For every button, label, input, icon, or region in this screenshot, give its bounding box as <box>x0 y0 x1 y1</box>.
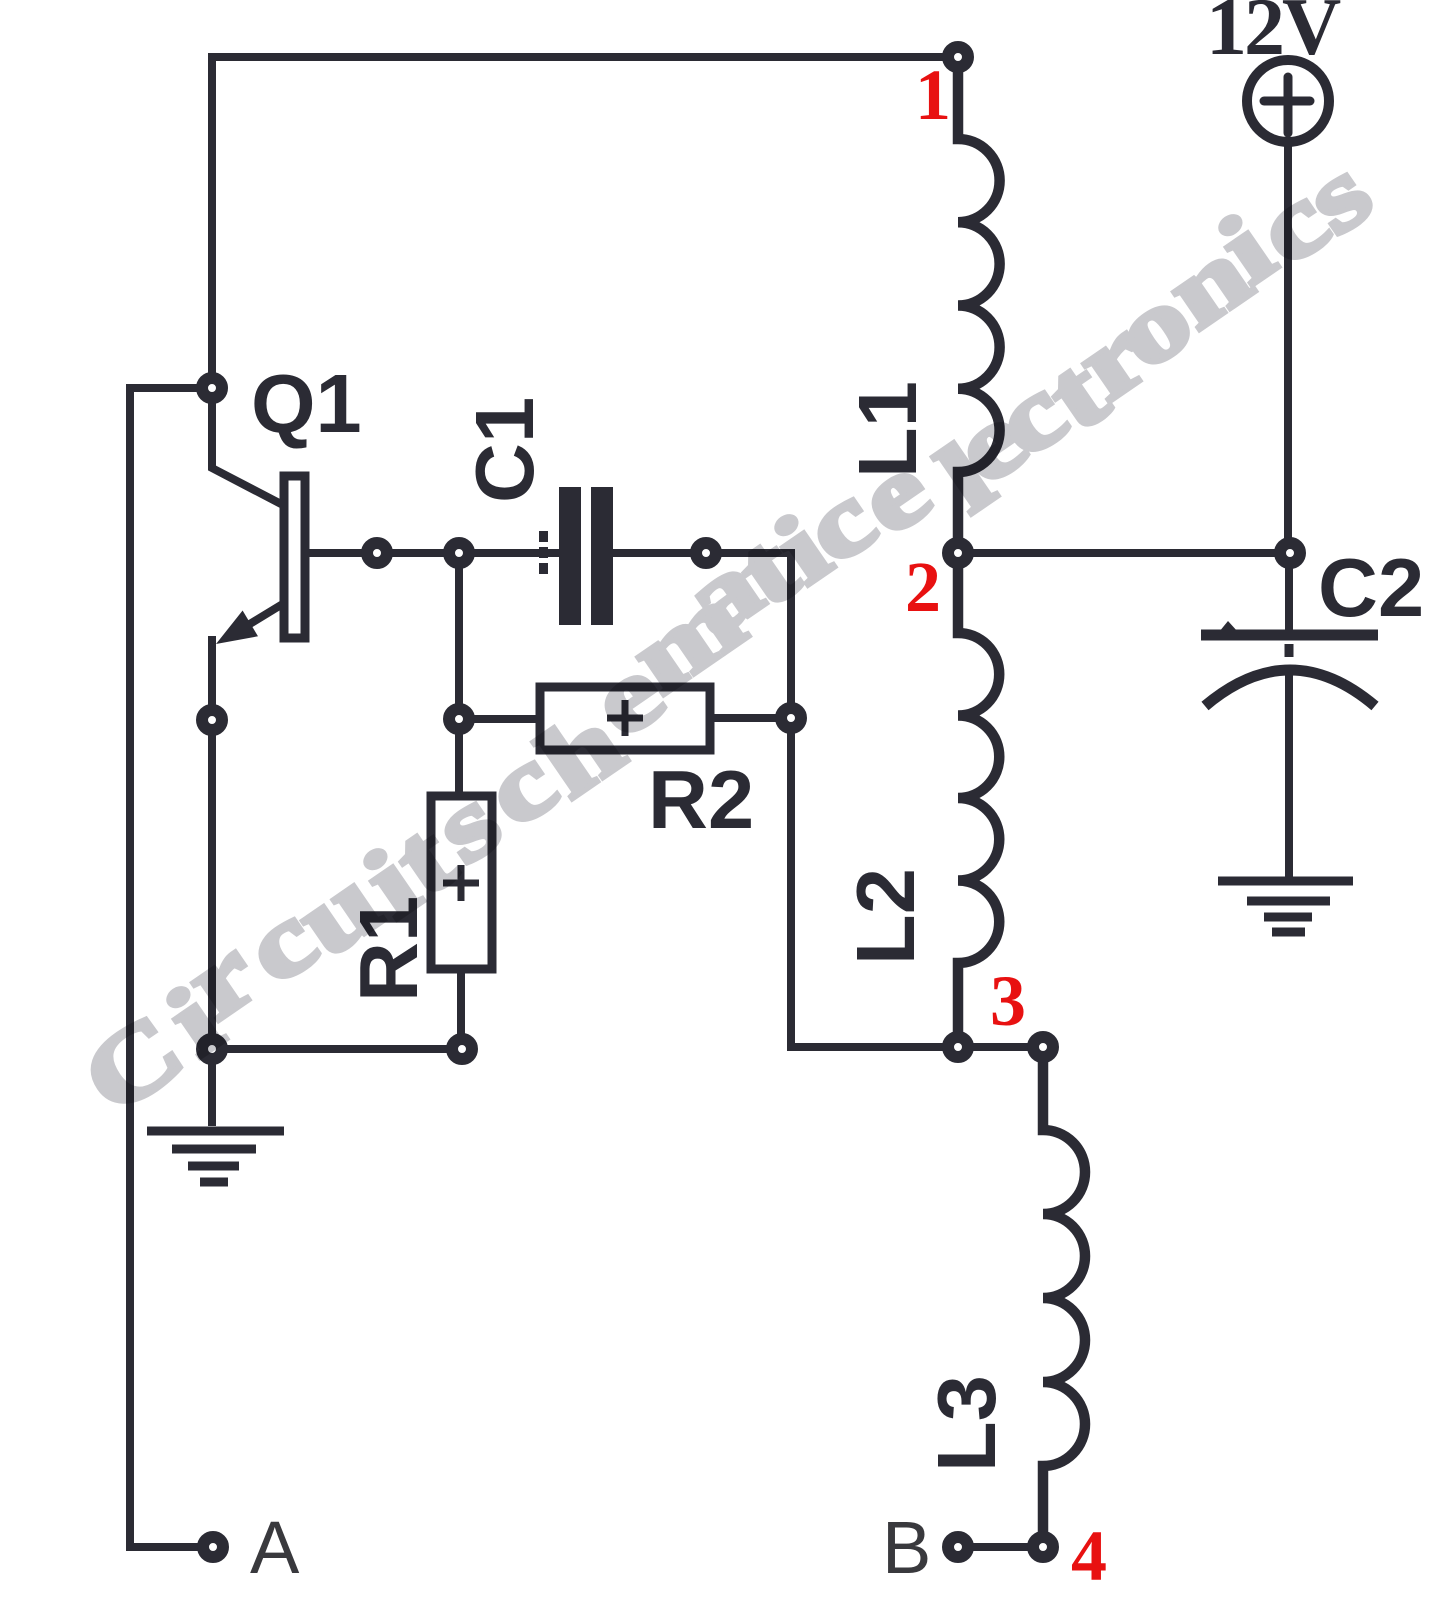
svg-text:A: A <box>250 1506 300 1589</box>
svg-text:R2: R2 <box>648 753 754 846</box>
svg-text:L2: L2 <box>839 868 932 965</box>
svg-text:2: 2 <box>905 547 941 627</box>
svg-text:Q1: Q1 <box>251 357 362 450</box>
svg-text:C1: C1 <box>458 397 551 503</box>
svg-text:C2: C2 <box>1318 541 1424 634</box>
svg-text:4: 4 <box>1071 1516 1107 1596</box>
svg-text:1: 1 <box>915 55 951 135</box>
svg-text:L3: L3 <box>920 1375 1013 1472</box>
svg-text:12V: 12V <box>1206 0 1341 72</box>
svg-text:3: 3 <box>990 961 1026 1041</box>
svg-text:B: B <box>882 1506 931 1589</box>
